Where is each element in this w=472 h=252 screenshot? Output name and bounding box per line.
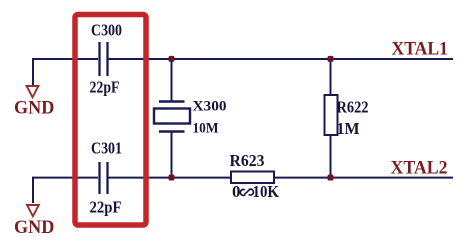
node junction bottom at R622 — [328, 175, 334, 181]
svg-text:22pF: 22pF — [90, 198, 122, 217]
node junction top at R622 — [328, 56, 334, 62]
wire XTAL1 top rail right segment — [109, 58, 454, 60]
resistor R623 — [230, 151, 280, 201]
wire bottom-left drop to ground — [32, 177, 34, 203]
ground (top left) — [14, 86, 54, 119]
ground (bottom left) — [14, 205, 54, 238]
svg-text:C301: C301 — [91, 139, 122, 158]
wire crystal top lead — [171, 59, 173, 101]
capacitor C301 — [90, 139, 123, 217]
svg-text:0: 0 — [232, 182, 241, 201]
svg-text:R623: R623 — [230, 151, 265, 170]
wire XTAL1 top rail left segment — [33, 58, 98, 60]
svg-text:X300: X300 — [193, 99, 227, 115]
wire R622 bottom lead — [330, 135, 332, 178]
svg-text:22pF: 22pF — [90, 78, 120, 97]
svg-text:C300: C300 — [91, 21, 122, 40]
wire XTAL2 bottom rail right segment — [109, 177, 454, 179]
svg-text:10K: 10K — [253, 182, 280, 201]
capacitor C300 — [90, 21, 123, 97]
crystal X300 — [154, 99, 227, 137]
wire crystal bottom lead — [171, 133, 173, 178]
svg-text:R622: R622 — [337, 98, 369, 117]
svg-text:GND: GND — [14, 218, 54, 238]
highlight box around C300/C301 — [75, 15, 146, 226]
wire R622 top lead — [330, 59, 332, 95]
wire top-left drop to ground — [32, 58, 34, 85]
svg-text:GND: GND — [14, 99, 54, 119]
resistor R622 — [325, 95, 369, 138]
node junction top at crystal — [169, 56, 175, 62]
svg-text:XTAL1: XTAL1 — [392, 39, 449, 60]
svg-text:1M: 1M — [337, 119, 360, 138]
svg-text:10M: 10M — [193, 120, 219, 136]
svg-text:XTAL2: XTAL2 — [391, 158, 448, 179]
node junction bottom at crystal — [169, 175, 175, 181]
wire XTAL2 bottom rail left segment — [33, 177, 98, 179]
